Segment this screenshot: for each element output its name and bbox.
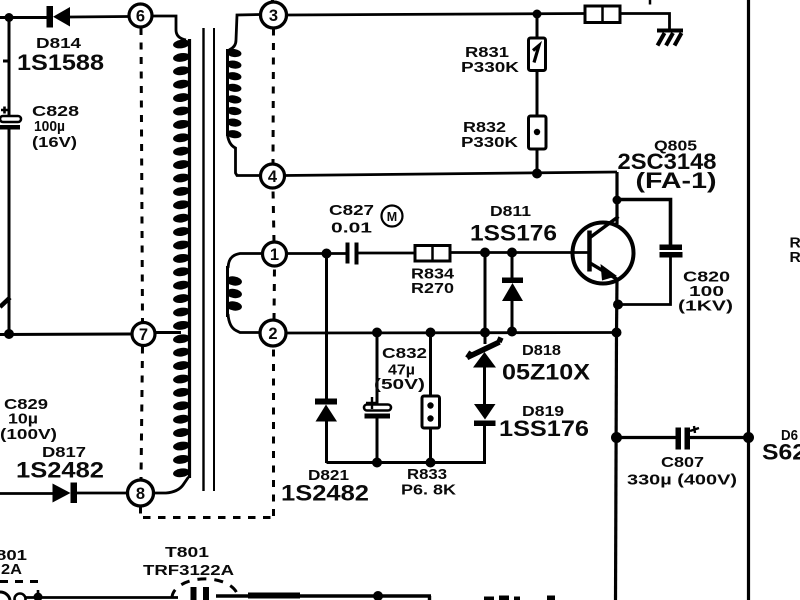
svg-text:2: 2: [268, 325, 277, 343]
capacitor C807: [676, 426, 700, 450]
transformer secondary B spine: [226, 266, 229, 317]
svg-text:1SS176: 1SS176: [470, 221, 557, 246]
transformer secondary B loops: [225, 275, 242, 286]
svg-text:D811: D811: [490, 203, 531, 220]
junction bottom wire: [373, 591, 383, 600]
wire R834 to base: [450, 251, 588, 254]
junction R833 on emitter rail: [426, 328, 436, 338]
svg-text:P330K: P330K: [461, 134, 518, 151]
bottom wire left: [26, 596, 178, 599]
bottom rail D821-D819: [327, 461, 487, 464]
small circle terminal: [15, 594, 26, 600]
junction at D811 top: [507, 248, 517, 258]
svg-text:1S2482: 1S2482: [16, 458, 104, 483]
svg-text:1S1588: 1S1588: [17, 50, 104, 75]
wire node 3 to top-right resistor: [287, 14, 585, 16]
svg-text:330µ (400V): 330µ (400V): [627, 472, 737, 489]
svg-text:S62: S62: [762, 440, 800, 465]
svg-text:100µ: 100µ: [34, 118, 65, 135]
dashed arc T801 outline: [172, 579, 238, 598]
right vertical wire: [747, 0, 750, 600]
transformer secondary A loops: [226, 48, 242, 58]
diode D821: [315, 399, 337, 464]
transformer secondary A spine: [226, 49, 229, 136]
svg-text:TRF3122A: TRF3122A: [143, 562, 234, 579]
wire node 1 to C827: [287, 252, 347, 255]
wire C827 to R834: [359, 252, 416, 255]
junction R833 bottom rail: [426, 458, 436, 468]
svg-text:T801: T801: [165, 544, 209, 561]
svg-text:2A: 2A: [1, 561, 22, 578]
transformer secondary B bottom lead to node 2: [228, 314, 260, 333]
svg-text:M: M: [387, 210, 397, 224]
junction on node-4 rail: [532, 169, 542, 179]
capacitor C820: [660, 245, 683, 258]
capacitor C832: [364, 397, 391, 419]
wire end hook: [428, 596, 431, 600]
capacitor C828: [0, 107, 21, 130]
junction right vertical: [743, 432, 754, 443]
svg-text:1SS176: 1SS176: [499, 416, 589, 441]
resistor R834: [415, 246, 450, 262]
dashed link 3-4: [272, 29, 276, 165]
svg-text:(50V): (50V): [374, 376, 425, 393]
svg-text:0.01: 0.01: [331, 220, 372, 237]
node 8: [128, 480, 154, 506]
wire R833 top: [429, 333, 432, 397]
transformer secondary A bottom lead to node 4: [228, 135, 261, 176]
bottom edge fragments: [484, 597, 494, 600]
wire D818 to D819: [483, 367, 486, 404]
wire zener branch middle: [484, 333, 487, 345]
partial circle bottom-left corner: [0, 592, 10, 600]
svg-text:(FA-1): (FA-1): [636, 168, 717, 193]
svg-text:(16V): (16V): [32, 134, 77, 151]
wire C828 down to lower rail: [8, 129, 11, 334]
wire C832 bottom: [376, 418, 379, 463]
svg-text:D818: D818: [522, 342, 561, 359]
node 3: [261, 2, 287, 28]
winding marks inside T801: [191, 587, 197, 600]
transformer primary tap to node 7: [155, 331, 181, 334]
junction emitter rail: [612, 328, 622, 338]
transistor Q805: [573, 217, 634, 284]
resistor R831: [529, 38, 546, 71]
wire R831 top: [536, 14, 539, 38]
node 7: [132, 323, 155, 346]
transformer primary winding loops: [172, 39, 190, 50]
svg-text:P330K: P330K: [461, 59, 519, 76]
thick segment: [248, 593, 300, 599]
svg-text:R833: R833: [407, 466, 447, 483]
svg-text:C827: C827: [329, 202, 374, 219]
resistor R833: [422, 396, 440, 428]
wire D819 bottom: [483, 425, 486, 464]
dashed link 4-1: [273, 189, 274, 243]
tick at top edge: [649, 0, 652, 5]
wire C807 to right vertical: [690, 436, 749, 439]
dashed link 7-8: [141, 347, 143, 480]
node 1: [263, 242, 287, 266]
emitter rail node2 to Q805: [286, 331, 617, 334]
transformer primary winding spine: [188, 39, 191, 478]
svg-text:7: 7: [139, 326, 148, 344]
svg-text:C807: C807: [661, 454, 704, 471]
wire top-left to D814: [0, 16, 47, 19]
transformer primary bottom lead to node 8: [154, 477, 189, 493]
svg-text:(100V): (100V): [0, 426, 57, 443]
wire zener branch upper: [484, 253, 487, 334]
junction C832 bottom rail: [372, 458, 382, 468]
wire junction down to C828: [8, 18, 11, 117]
dashed link 6-7: [141, 28, 143, 322]
capacitor C827: [346, 243, 359, 265]
wire R833 bottom: [429, 428, 432, 463]
stray arrow fragment at left edge: [0, 298, 10, 308]
junction top-left: [5, 13, 14, 22]
transformer secondary B top lead from node 1: [228, 254, 263, 269]
dashed link 2-corner: [272, 347, 275, 517]
collector wire up: [615, 172, 618, 224]
transformer core: [204, 28, 215, 491]
resistor (unlabeled, top right): [585, 6, 620, 23]
wire R831 to R832: [536, 71, 539, 117]
diode D821 branch wire: [325, 254, 328, 400]
diode D819: [474, 404, 496, 426]
node 6: [129, 4, 152, 27]
junction emitter / C820: [613, 300, 623, 310]
svg-text:8: 8: [136, 485, 145, 503]
wire C820 bottom to emitter: [618, 258, 671, 305]
junction left rail: [4, 329, 14, 339]
svg-text:05Z10X: 05Z10X: [502, 360, 590, 385]
dashed fragment bottom-left: [0, 580, 44, 583]
diode D817: [53, 483, 128, 504]
emitter wire down: [615, 279, 619, 333]
svg-text:C832: C832: [382, 345, 427, 362]
svg-text:3: 3: [269, 7, 278, 25]
svg-text:4: 4: [268, 168, 278, 186]
junction D811 on emitter rail: [507, 327, 517, 337]
junction C832 on emitter rail: [372, 328, 382, 338]
wire C832 top: [376, 333, 379, 405]
svg-text:6: 6: [136, 8, 145, 26]
diode D811: [502, 253, 523, 333]
svg-text:(1KV): (1KV): [678, 298, 733, 315]
junction C807 on emitter vertical: [611, 432, 622, 443]
wire R832 down to node-4 rail: [536, 149, 539, 174]
wire left edge to node 7: [0, 333, 132, 337]
dashed link 1-2: [273, 267, 277, 321]
tick above node 3: [271, 0, 274, 3]
dashed link 8-corner: [139, 507, 142, 520]
junction at R831 top: [533, 10, 542, 19]
svg-text:R8: R8: [790, 249, 800, 266]
resistor R832: [529, 116, 547, 149]
junction above D821: [322, 249, 332, 259]
transformer secondary A top lead from node 3: [229, 15, 261, 51]
wire to C807: [617, 436, 677, 439]
svg-text:1: 1: [270, 246, 279, 264]
wire node 4 to collector: [285, 172, 618, 176]
tick on wire: [3, 60, 8, 63]
junction zener branch on emitter rail: [480, 328, 490, 338]
junction collector / C820: [613, 196, 622, 205]
wire resistor to ground: [620, 14, 670, 31]
diode D814: [47, 6, 129, 28]
ground: [657, 31, 683, 46]
svg-text:P6. 8K: P6. 8K: [401, 482, 456, 499]
svg-text:1S2482: 1S2482: [281, 481, 369, 506]
junction at zener branch top: [480, 248, 490, 258]
node 2: [260, 320, 286, 346]
zener diode D818: [467, 338, 501, 368]
transformer T801 primary top lead: [153, 16, 187, 40]
junction with stub: [37, 590, 40, 598]
wire left edge to D817: [0, 492, 53, 495]
wire to C820 top: [617, 200, 671, 246]
svg-text:R270: R270: [411, 280, 454, 297]
svg-text:10µ: 10µ: [8, 411, 38, 428]
mark M circle: [382, 206, 403, 227]
emitter vertical to bottom edge: [616, 333, 617, 600]
dashed bottom link: [143, 516, 274, 519]
node 4: [261, 164, 285, 188]
bottom wire right of T801: [216, 594, 431, 597]
